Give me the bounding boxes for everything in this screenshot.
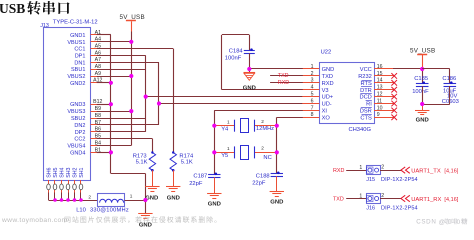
svg-text:UD+: UD+ — [322, 95, 334, 101]
svg-text:13: 13 — [377, 85, 383, 91]
svg-text:1: 1 — [130, 193, 133, 198]
svg-text:VBUS3: VBUS3 — [67, 109, 85, 115]
svg-text:L10: L10 — [76, 208, 86, 214]
svg-text:1: 1 — [359, 193, 362, 199]
resistor R173 5.1K — [133, 151, 156, 186]
ground under R173 — [145, 187, 159, 202]
svg-text:C185: C185 — [414, 76, 428, 82]
pin B9 VBUS3 of J13 — [67, 106, 101, 115]
svg-text:VCC: VCC — [360, 67, 372, 73]
junction dots shield bus — [53, 198, 83, 202]
svg-text:DN2: DN2 — [74, 123, 85, 129]
svg-text:CTS: CTS — [360, 115, 372, 121]
connector J13 shield pins SH6-SH1 — [46, 167, 85, 200]
wire caps bottom rail to GND — [422, 86, 450, 110]
svg-text:XI: XI — [322, 109, 328, 115]
svg-text:RXD: RXD — [278, 80, 289, 86]
svg-text:DIP-1X2-2P54: DIP-1X2-2P54 — [381, 206, 418, 212]
svg-text:9: 9 — [377, 112, 380, 118]
svg-text:2: 2 — [381, 164, 384, 170]
U22 refdes — [321, 49, 332, 55]
svg-text:DP2: DP2 — [75, 130, 86, 136]
pin A5 CC1 of J13 — [74, 44, 101, 53]
power 5V_USB (left) — [120, 14, 145, 32]
junction dots GND bus — [109, 81, 113, 155]
svg-text:10: 10 — [377, 105, 383, 111]
junction dot C184/GND/pin1 — [247, 67, 251, 71]
svg-text:C184: C184 — [229, 49, 244, 55]
pin A6 DP1 of J13 — [75, 50, 101, 59]
svg-text:22pF: 22pF — [189, 181, 203, 187]
IC U22 CH340G body — [320, 63, 375, 124]
svg-text:5V_USB: 5V_USB — [410, 48, 435, 55]
svg-text:V3: V3 — [322, 88, 329, 94]
svg-text:12MHz: 12MHz — [256, 126, 274, 132]
svg-text:GND: GND — [270, 199, 283, 205]
ground under C184 (signal gnd triangle) — [243, 73, 256, 92]
svg-text:J15: J15 — [366, 177, 375, 183]
svg-text:4: 4 — [311, 85, 314, 91]
resistor R174 5.1K — [170, 151, 194, 186]
pin A7 DN1 of J13 — [74, 57, 101, 66]
svg-text:12: 12 — [377, 92, 383, 98]
svg-text:Y4: Y4 — [221, 127, 229, 133]
svg-text:RXD: RXD — [322, 81, 334, 87]
pin B5 CC2 of J13 — [74, 134, 101, 143]
pin B1 GND4 of J13 — [70, 147, 101, 156]
svg-text:2: 2 — [261, 146, 264, 151]
pin A9 VBUS2 of J13 — [67, 71, 101, 80]
svg-text:8: 8 — [311, 112, 314, 118]
svg-text:J16: J16 — [366, 206, 375, 212]
svg-text:SH4: SH4 — [59, 167, 65, 177]
ground under C188 — [270, 192, 284, 206]
capacitor C187 22pF — [189, 173, 220, 194]
svg-text:3: 3 — [311, 78, 314, 84]
svg-text:2: 2 — [311, 71, 314, 77]
svg-text:GND3: GND3 — [70, 102, 85, 108]
svg-text:TXD: TXD — [333, 197, 344, 203]
svg-text:15: 15 — [377, 71, 383, 77]
ground under C185/C186 — [415, 111, 429, 124]
svg-text:14: 14 — [377, 78, 383, 84]
svg-text:CH340G: CH340G — [348, 127, 371, 133]
wire TXD net label — [270, 73, 303, 79]
svg-text:@: @ — [439, 219, 445, 226]
capacitor C186 10uF — [442, 76, 459, 105]
svg-text:J13: J13 — [40, 23, 49, 29]
svg-text:11: 11 — [377, 98, 382, 104]
wire CC1 to R174 — [97, 49, 174, 153]
junction dots 5V bus — [129, 40, 133, 114]
crystal Y4 12MHz — [214, 119, 276, 133]
svg-text:2: 2 — [261, 119, 264, 124]
svg-text:GND: GND — [243, 86, 256, 92]
svg-text:UART1_RX: UART1_RX — [411, 197, 441, 203]
svg-text:DCD: DCD — [359, 95, 371, 101]
svg-text:www.toymoban.com: www.toymoban.com — [1, 217, 68, 224]
svg-text:C187: C187 — [193, 174, 207, 180]
svg-text:SBU1: SBU1 — [71, 67, 85, 73]
svg-text:16: 16 — [377, 64, 383, 70]
svg-text:GND: GND — [208, 202, 221, 208]
title USB to serial port heading — [0, 1, 70, 16]
svg-text:RXD: RXD — [333, 168, 344, 174]
wire GND bus (GND1-GND4) — [97, 35, 146, 214]
svg-text:UD-: UD- — [322, 102, 332, 108]
svg-text:1: 1 — [359, 165, 362, 171]
svg-text:2: 2 — [381, 193, 384, 199]
power 5V_USB (right) — [410, 48, 435, 68]
capacitor C185 100nF — [412, 76, 429, 95]
svg-text:[4,16]: [4,16] — [444, 169, 458, 175]
wire shield bus to L10 — [49, 200, 98, 202]
U22 part CH340G — [348, 127, 371, 133]
junction dots Y5 — [212, 150, 279, 154]
junction dots Y4 — [212, 124, 279, 128]
watermark CSDN — [416, 218, 467, 226]
pin A8 SBU1 of J13 — [71, 64, 101, 73]
svg-text:DSR: DSR — [360, 109, 372, 115]
svg-text:R232: R232 — [358, 74, 372, 80]
ground main (bottom) — [138, 214, 152, 229]
svg-text:RI: RI — [366, 102, 372, 108]
pin B4 VBUS4 of J13 — [67, 140, 101, 149]
svg-text:SBU2: SBU2 — [71, 116, 85, 122]
svg-text:TXD: TXD — [322, 74, 333, 80]
crystal Y5 (NC) — [214, 146, 276, 161]
wire SBU1 — [97, 69, 146, 71]
svg-text:100nF: 100nF — [225, 56, 242, 62]
wire DN1/DN2 to UD- — [97, 62, 303, 125]
junction dot shield/GND — [143, 198, 147, 202]
pin B8 SBU2 of J13 — [71, 113, 101, 122]
connector J15 header RXD to UART1_TX — [333, 164, 459, 183]
pin A1 GND1 of J13 — [70, 30, 101, 39]
svg-text:GND4: GND4 — [70, 150, 85, 156]
svg-text:[4,16]: [4,16] — [444, 197, 458, 203]
svg-text:NC: NC — [263, 155, 271, 161]
wire L10 pin1 to GND — [125, 200, 146, 202]
connector J13 refdes — [40, 23, 49, 29]
svg-text:22pF: 22pF — [252, 180, 266, 186]
svg-text:SH1: SH1 — [79, 167, 85, 177]
svg-text:CC2: CC2 — [74, 137, 85, 143]
svg-text:TYPE-C-31-M-12: TYPE-C-31-M-12 — [53, 20, 98, 26]
wire RXD net label — [270, 80, 303, 86]
svg-text:330@100MHz: 330@100MHz — [90, 208, 129, 214]
svg-text:C186: C186 — [442, 76, 456, 82]
svg-text:C188: C188 — [256, 173, 270, 179]
wire V3 to C184 — [222, 35, 303, 90]
svg-text:SH6: SH6 — [46, 167, 52, 177]
svg-text:GND2: GND2 — [70, 81, 85, 87]
junction dot DP net — [144, 95, 148, 99]
svg-text:6: 6 — [311, 98, 314, 104]
watermark toymoban — [1, 216, 217, 224]
svg-text:5.1K: 5.1K — [136, 160, 148, 166]
wire SBU2 — [97, 118, 146, 120]
svg-text:SH3: SH3 — [66, 167, 72, 177]
svg-text:1: 1 — [227, 146, 230, 151]
svg-text:TXD: TXD — [278, 73, 289, 79]
pin B7 DN2 of J13 — [74, 120, 101, 129]
capacitor C184 100nF — [225, 48, 255, 61]
wire CC2 to R173 — [97, 139, 153, 153]
svg-text:SH2: SH2 — [72, 167, 78, 177]
svg-text:2: 2 — [88, 194, 91, 199]
wire DP1/DP2 to UD+ — [97, 56, 303, 132]
wire XO to crystal rail — [277, 117, 303, 173]
svg-text:U22: U22 — [321, 49, 332, 55]
svg-text:GND: GND — [416, 117, 429, 123]
svg-text:VBUS2: VBUS2 — [67, 74, 85, 80]
capacitor C188 22pF — [252, 172, 283, 192]
svg-text:VBUS1: VBUS1 — [67, 40, 85, 46]
U22 right pins 16-9 with no-connect marks — [358, 64, 397, 122]
svg-text:UART1_TX: UART1_TX — [411, 168, 441, 174]
wire VCC to 5V — [393, 68, 423, 84]
wire 5V bus (VBUS1-VBUS4) — [97, 32, 132, 146]
pin B6 DP2 of J13 — [75, 127, 101, 136]
ground under R174 — [166, 187, 180, 202]
svg-text:5: 5 — [311, 92, 314, 98]
svg-text:GND: GND — [167, 195, 180, 201]
svg-text:1: 1 — [227, 119, 230, 124]
junction dot caps gnd rail — [420, 102, 424, 106]
svg-text:SH5: SH5 — [53, 167, 59, 177]
svg-text:1: 1 — [311, 64, 314, 70]
wire XI to crystal rail — [214, 110, 302, 174]
connector J13 part TYPE-C-31-M-12 — [53, 20, 98, 26]
svg-text:GND1: GND1 — [70, 33, 85, 39]
svg-text:VBUS4: VBUS4 — [67, 144, 85, 150]
svg-text:RTS: RTS — [361, 81, 372, 87]
svg-text:100nF: 100nF — [412, 89, 429, 95]
junction dot DN net — [157, 101, 161, 105]
svg-text:GND: GND — [139, 222, 152, 228]
wire C184 to GND and U22 pin1 — [249, 53, 302, 72]
svg-text:USB: USB — [0, 1, 25, 16]
svg-text:5.1K: 5.1K — [181, 160, 193, 166]
svg-text:CSDN: CSDN — [416, 219, 436, 226]
svg-text:CC1: CC1 — [74, 47, 85, 53]
svg-text:7: 7 — [311, 105, 314, 111]
ground under C187 — [207, 194, 221, 208]
svg-text:Y5: Y5 — [221, 153, 228, 159]
pin A4 VBUS1 of J13 — [67, 37, 101, 46]
svg-text:DN1: DN1 — [74, 60, 85, 66]
connector J13 body — [44, 28, 91, 181]
pin B12 GND3 of J13 — [70, 99, 102, 108]
svg-text:DP1: DP1 — [75, 54, 86, 60]
svg-text:0: 0 — [457, 219, 461, 226]
svg-text:DTR: DTR — [360, 88, 372, 94]
svg-text:DIP-1X2-2P54: DIP-1X2-2P54 — [381, 177, 418, 183]
U22 left pins 1-8 — [302, 64, 334, 122]
connector J16 header TXD to UART1_RX — [333, 193, 459, 212]
pin A12 GND2 of J13 — [70, 78, 102, 87]
svg-text:GND: GND — [322, 67, 335, 73]
wire 5V to C186 — [422, 69, 450, 84]
junction dot VCC/5V — [420, 67, 424, 71]
svg-text:XO: XO — [322, 115, 331, 121]
inductor L10 330@100MHz — [76, 193, 133, 213]
